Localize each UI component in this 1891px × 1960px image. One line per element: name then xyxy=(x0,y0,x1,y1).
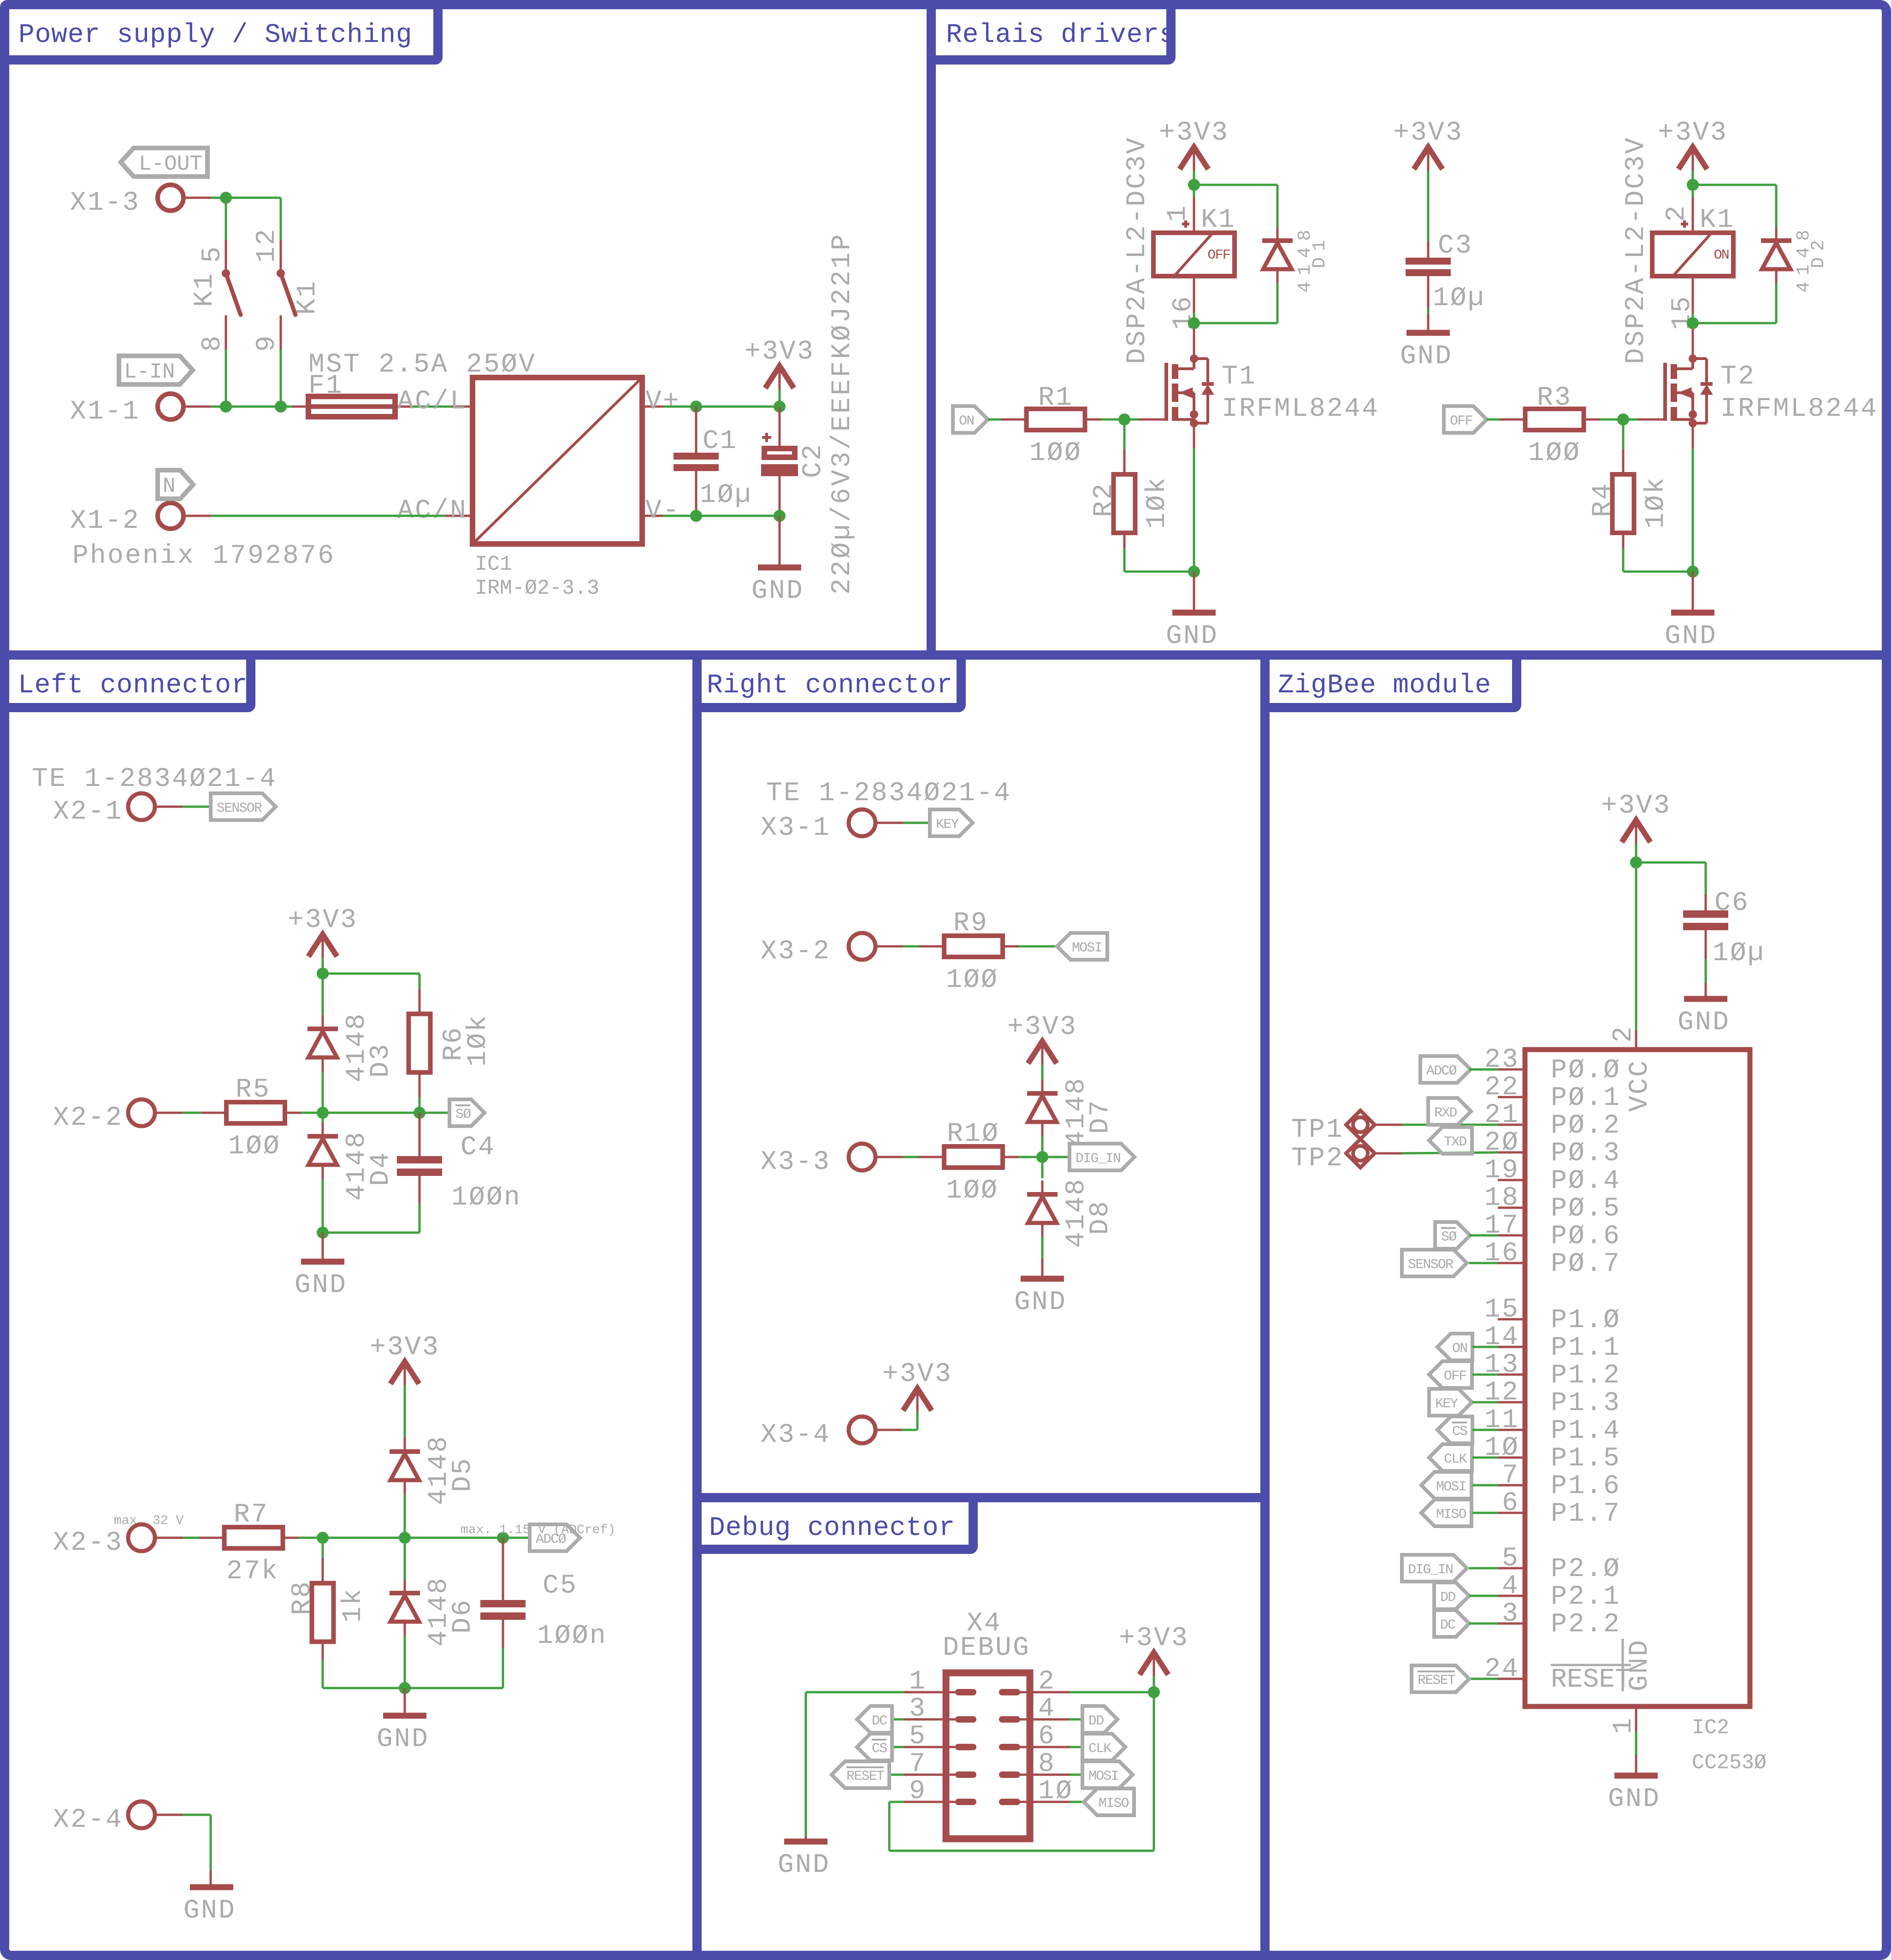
wire K1 contact 1 to L-IN node xyxy=(225,349,227,407)
wire TP1 to pin 21 xyxy=(1375,1124,1498,1126)
power +3V3 supply left connector upper xyxy=(288,905,358,958)
resistor R6 xyxy=(409,989,431,1113)
flag MOSI net right connector xyxy=(1057,933,1107,960)
capacitor C3 xyxy=(1406,171,1451,330)
wire +3V3 to V+ node xyxy=(779,390,781,407)
wire R7 to node R8 xyxy=(299,1537,323,1539)
coil plus sign T1 xyxy=(1182,223,1189,225)
svg-text:1Øk: 1Øk xyxy=(463,1014,493,1067)
svg-text:PØ.7: PØ.7 xyxy=(1551,1249,1621,1279)
IC2 pin 16 stub xyxy=(1498,1262,1525,1264)
wire X1-3 to node xyxy=(183,197,226,199)
flag L-OUT xyxy=(121,148,207,177)
IC2 pin 4 stub xyxy=(1498,1595,1525,1597)
svg-text:5: 5 xyxy=(1502,1544,1519,1574)
svg-text:1ØØ: 1ØØ xyxy=(946,965,999,995)
svg-text:GND: GND xyxy=(1625,1639,1655,1691)
svg-text:P1.5: P1.5 xyxy=(1551,1444,1621,1474)
svg-text:D7: D7 xyxy=(1086,1099,1116,1134)
wire KEY to pin 12 xyxy=(1472,1401,1498,1404)
junction X1-1 a xyxy=(220,401,232,413)
svg-text:CC253Ø: CC253Ø xyxy=(1692,1751,1767,1775)
svg-text:P2.1: P2.1 xyxy=(1551,1582,1621,1612)
wire source node to GND T1 xyxy=(1193,572,1195,613)
capacitor C6 xyxy=(1683,894,1728,999)
svg-text:IRFML8244: IRFML8244 xyxy=(1222,394,1379,424)
junction gate node T1 xyxy=(1118,413,1130,425)
svg-text:D1: D1 xyxy=(1310,234,1330,268)
flag S0 net xyxy=(449,1099,485,1126)
connector pin X1-1 xyxy=(70,394,183,427)
connector pin X2-2 xyxy=(53,1099,155,1133)
svg-text:R1Ø: R1Ø xyxy=(947,1119,999,1149)
svg-text:CLK: CLK xyxy=(1444,1452,1467,1467)
frame divider horizontal main xyxy=(0,650,1891,660)
IC2 pin 1 GND stub xyxy=(1635,1706,1637,1776)
ground GND C3 xyxy=(1400,333,1453,372)
svg-text:R1: R1 xyxy=(1038,383,1073,413)
junction source node T2 xyxy=(1687,566,1699,578)
svg-text:+3V3: +3V3 xyxy=(1159,118,1229,148)
wire +3V3 to coil node T2 xyxy=(1692,171,1694,185)
svg-text:X3-1: X3-1 xyxy=(761,813,831,843)
connector pin X1-2 xyxy=(70,503,183,536)
svg-text:R9: R9 xyxy=(953,909,988,939)
junction ADC node c xyxy=(497,1532,509,1544)
junction V+ at C1 xyxy=(690,401,702,413)
resistor R10 xyxy=(919,1146,1028,1168)
wire MISO to pin 6 xyxy=(1472,1512,1498,1514)
wire +3V3 to coil node T1 xyxy=(1193,171,1195,185)
wire pin 10 to MISO xyxy=(1020,1801,1084,1803)
svg-text:1ØØn: 1ØØn xyxy=(451,1183,521,1213)
svg-text:GND: GND xyxy=(1678,1008,1730,1038)
diode D1 xyxy=(1262,227,1293,283)
svg-text:OFF: OFF xyxy=(1444,1369,1466,1384)
svg-text:PØ.6: PØ.6 xyxy=(1551,1222,1621,1252)
power +3V3 supply driver T1 xyxy=(1159,118,1229,171)
ground GND IC2 xyxy=(1608,1776,1661,1814)
IC2 pin 21 stub xyxy=(1498,1124,1525,1126)
svg-text:MOSI: MOSI xyxy=(1072,940,1102,956)
section title Power supply / Switching xyxy=(5,5,438,60)
wire V- to GND xyxy=(779,516,781,567)
IC2 pin 14 stub xyxy=(1498,1346,1525,1348)
svg-text:D4: D4 xyxy=(366,1151,396,1186)
diode D6 xyxy=(390,1544,420,1682)
svg-text:GND: GND xyxy=(778,1850,830,1880)
wire X3-1 to KEY xyxy=(875,822,930,824)
svg-text:AC/N: AC/N xyxy=(397,496,467,526)
svg-text:X2-1: X2-1 xyxy=(53,797,123,827)
svg-text:+3V3: +3V3 xyxy=(1601,791,1671,821)
transistor T1 IRFML8244 xyxy=(1164,354,1214,427)
flag N xyxy=(158,470,193,499)
svg-text:R8: R8 xyxy=(288,1580,318,1615)
flag KEY net zigbee xyxy=(1429,1389,1472,1416)
svg-text:DD: DD xyxy=(1440,1590,1455,1606)
wire R1 to gate node xyxy=(1101,419,1124,421)
wire node to node C5 xyxy=(405,1537,503,1539)
svg-text:DIG_IN: DIG_IN xyxy=(1076,1151,1120,1167)
svg-text:K1: K1 xyxy=(190,272,220,307)
wire diode D2 to coil bottom xyxy=(1775,283,1778,323)
svg-text:1ØØ: 1ØØ xyxy=(228,1132,281,1162)
wire pin 4 to DD xyxy=(1020,1718,1082,1721)
flag MISO net zigbee xyxy=(1421,1500,1471,1526)
flag DD net debug xyxy=(1082,1706,1117,1733)
svg-text:P2.2: P2.2 xyxy=(1551,1610,1621,1640)
resistor R9 xyxy=(919,936,1028,957)
wire MOSI to pin 7 xyxy=(1472,1484,1498,1487)
svg-text:ADCØ: ADCØ xyxy=(1426,1063,1457,1079)
svg-text:D6: D6 xyxy=(448,1599,478,1634)
svg-text:2: 2 xyxy=(1609,1025,1639,1043)
power +3V3 supply debug xyxy=(1119,1623,1189,1676)
svg-text:DEBUG: DEBUG xyxy=(943,1633,1030,1663)
svg-text:D3: D3 xyxy=(366,1043,396,1078)
wire L-OUT across xyxy=(226,197,281,199)
junction +3V3 debug xyxy=(1148,1686,1160,1698)
fuse F1 xyxy=(292,396,413,417)
wire pin 1 to GND debug xyxy=(806,1692,955,1842)
connector pin X3-1 xyxy=(761,809,875,843)
wire R10 to node xyxy=(1018,1156,1042,1158)
svg-text:1ØØ: 1ØØ xyxy=(1029,438,1082,468)
wire node to GND left lower xyxy=(404,1688,406,1716)
IC2 pin 3 stub xyxy=(1498,1623,1525,1625)
svg-text:ON: ON xyxy=(959,413,974,429)
wire X2-1 to SENSOR xyxy=(154,806,211,808)
svg-text:X2-4: X2-4 xyxy=(53,1805,123,1835)
svg-text:P1.3: P1.3 xyxy=(1551,1388,1621,1418)
ground GND C6 xyxy=(1678,999,1730,1038)
header X4 DEBUG xyxy=(946,1673,1030,1839)
ground GND left lower xyxy=(377,1716,429,1754)
IC2 pin 5 stub xyxy=(1498,1567,1525,1570)
svg-text:KEY: KEY xyxy=(936,817,959,832)
svg-text:+3V3: +3V3 xyxy=(1393,118,1463,148)
relay coil K1 T2 xyxy=(1652,197,1733,313)
svg-text:GND: GND xyxy=(295,1270,347,1300)
section title ZigBee module xyxy=(1265,655,1517,708)
svg-text:TP2: TP2 xyxy=(1291,1144,1344,1174)
svg-text:V-: V- xyxy=(645,496,680,526)
flag DC net zigbee xyxy=(1434,1610,1469,1637)
svg-text:R4: R4 xyxy=(1588,482,1618,517)
wire node to DIG_IN flag xyxy=(1042,1156,1070,1158)
svg-text:IRFML8244: IRFML8244 xyxy=(1720,394,1878,424)
svg-text:PØ.2: PØ.2 xyxy=(1551,1111,1621,1141)
svg-text:P1.7: P1.7 xyxy=(1551,1499,1621,1529)
junction ADC node a xyxy=(317,1532,329,1544)
svg-text:+3V3: +3V3 xyxy=(1007,1012,1077,1042)
wire IC1 V+ to C1 xyxy=(663,406,696,408)
svg-text:D8: D8 xyxy=(1086,1200,1116,1235)
wire DC to pin 3 xyxy=(1469,1623,1498,1625)
power +3V3 supply C3 xyxy=(1393,118,1463,171)
svg-text:1ØØ: 1ØØ xyxy=(1528,438,1581,468)
wire CLK to pin 10 xyxy=(1472,1457,1498,1459)
junction V- at C2 xyxy=(774,510,786,522)
wire node to node D5 xyxy=(323,1537,405,1539)
wire X3-4 to +3V3 xyxy=(875,1411,917,1430)
svg-text:PØ.5: PØ.5 xyxy=(1551,1194,1621,1224)
svg-text:R3: R3 xyxy=(1537,383,1572,413)
svg-text:CS: CS xyxy=(1452,1424,1467,1440)
svg-text:Power supply / Switching: Power supply / Switching xyxy=(18,20,413,50)
svg-text:+3V3: +3V3 xyxy=(745,337,815,367)
svg-text:ON: ON xyxy=(1714,248,1729,263)
resistor R3 xyxy=(1500,409,1609,430)
resistor R4 xyxy=(1613,419,1634,572)
wire R9 to MOSI xyxy=(1018,945,1057,948)
svg-text:+3V3: +3V3 xyxy=(1658,118,1728,148)
flag RESET net zigbee xyxy=(1412,1665,1469,1692)
junction signal S0 b xyxy=(414,1107,425,1119)
flag DIG_IN net right connector xyxy=(1070,1144,1135,1170)
connector pin X2-1 xyxy=(53,793,155,827)
svg-text:IC1: IC1 xyxy=(475,553,512,576)
wire V+ C1 to C2 xyxy=(696,406,780,408)
flag KEY net right connector xyxy=(930,809,973,836)
flag OFF net zigbee xyxy=(1429,1361,1472,1388)
svg-text:P1.4: P1.4 xyxy=(1551,1416,1621,1446)
diode D7 xyxy=(1027,1080,1058,1157)
svg-text:GND: GND xyxy=(751,576,804,606)
svg-text:R5: R5 xyxy=(236,1075,271,1105)
wire +3V3 to D7 xyxy=(1041,1065,1044,1080)
svg-text:K1: K1 xyxy=(1201,205,1236,235)
svg-text:DSP2A-L2-DC3V: DSP2A-L2-DC3V xyxy=(1621,136,1651,364)
svg-text:C1: C1 xyxy=(703,426,738,456)
power +3V3 supply X3-4 xyxy=(882,1359,952,1412)
connector pin X3-2 xyxy=(761,933,875,967)
svg-text:L-OUT: L-OUT xyxy=(139,152,202,176)
section title Right connector xyxy=(697,655,961,708)
IC1 power module IRM-02-3.3 xyxy=(445,378,663,544)
wire pin 5 to CS xyxy=(892,1746,955,1748)
svg-text:Relais drivers: Relais drivers xyxy=(946,20,1176,50)
frame divider vertical top xyxy=(927,9,936,655)
wire down to K1 contact 2 xyxy=(280,198,282,240)
svg-text:1Øk: 1Øk xyxy=(1641,476,1671,529)
svg-text:T2: T2 xyxy=(1720,362,1755,392)
wire X1-1 node to node b xyxy=(226,406,281,408)
relay coil K1 T1 xyxy=(1153,197,1235,313)
svg-text:X1-2: X1-2 xyxy=(70,506,140,536)
wire R4 to source node xyxy=(1623,571,1693,573)
flag CS net zigbee xyxy=(1437,1417,1472,1443)
input flag OFF xyxy=(1444,406,1487,433)
IC2 pin 23 stub xyxy=(1498,1069,1525,1071)
frame divider vertical bottom right xyxy=(1260,660,1270,1955)
relay contact K1 5-8 xyxy=(222,240,241,349)
diode D8 xyxy=(1027,1163,1058,1258)
wire S0 to pin 17 xyxy=(1469,1234,1498,1237)
ground GND right connector xyxy=(1014,1279,1067,1317)
wire coil bottom to transistor T1 xyxy=(1193,323,1195,329)
junction +3V3 left upper xyxy=(317,968,329,980)
flag SENSOR net xyxy=(211,793,276,820)
wire +3V3 to node D3 xyxy=(322,958,324,974)
svg-text:22Øµ/6V3/EEEFKØJ221P: 22Øµ/6V3/EEEFKØJ221P xyxy=(827,232,857,595)
IC2 pin 22 stub xyxy=(1498,1096,1525,1098)
resistor R2 xyxy=(1114,419,1135,572)
junction coil top T2 xyxy=(1687,179,1699,191)
wire X3-2 to R9 xyxy=(875,945,928,948)
flag ON net zigbee xyxy=(1437,1334,1472,1360)
svg-text:KEY: KEY xyxy=(1435,1396,1458,1412)
ground GND driver T2 xyxy=(1665,613,1717,651)
svg-text:N: N xyxy=(163,474,176,498)
wire coil top to diode D2 xyxy=(1693,184,1776,186)
svg-text:RESET: RESET xyxy=(1418,1673,1455,1688)
svg-text:AC/L: AC/L xyxy=(397,387,467,417)
svg-text:Left connector: Left connector xyxy=(18,671,248,701)
svg-text:SØ: SØ xyxy=(1441,1229,1457,1245)
svg-text:D2: D2 xyxy=(1808,234,1829,268)
wire X1-2 to IC1 AC/N xyxy=(183,515,445,517)
svg-text:SENSOR: SENSOR xyxy=(1408,1257,1454,1273)
wire diode D1 to coil bottom xyxy=(1276,283,1279,323)
wire IC1 V- to C1 bottom xyxy=(663,515,696,517)
wire ADC0 to pin 23 xyxy=(1469,1069,1498,1071)
svg-text:2: 2 xyxy=(1662,204,1692,222)
wire DIG_IN to pin 5 xyxy=(1469,1567,1498,1570)
svg-text:12: 12 xyxy=(252,228,282,263)
svg-text:1: 1 xyxy=(1163,204,1193,222)
svg-text:27k: 27k xyxy=(226,1557,279,1587)
svg-text:OFF: OFF xyxy=(1450,413,1472,429)
svg-text:18: 18 xyxy=(1484,1183,1519,1213)
wire R5 to node D3 xyxy=(301,1112,323,1114)
wire down to K1 contact 1 xyxy=(225,198,227,240)
svg-text:+3V3: +3V3 xyxy=(288,905,358,935)
svg-text:P1.1: P1.1 xyxy=(1551,1333,1621,1363)
connector pin X3-4 xyxy=(761,1417,875,1450)
wire coil top to diode D1 xyxy=(1194,184,1277,186)
junction DIG_IN node xyxy=(1036,1151,1048,1163)
junction VCC node zigbee xyxy=(1630,856,1642,868)
svg-text:6: 6 xyxy=(1502,1488,1519,1518)
transistor T2 IRFML8244 xyxy=(1663,354,1713,427)
junction gate node T2 xyxy=(1617,413,1629,425)
flag DD net zigbee xyxy=(1434,1582,1469,1609)
wire coil bottom to transistor T2 xyxy=(1692,323,1694,329)
svg-text:IRM-Ø2-3.3: IRM-Ø2-3.3 xyxy=(475,577,599,600)
wire OFF to pin 13 xyxy=(1472,1374,1498,1376)
junction V+ at C2 xyxy=(774,401,786,413)
svg-text:R2: R2 xyxy=(1089,482,1119,517)
diode D4 xyxy=(307,1113,338,1233)
svg-text:X1-1: X1-1 xyxy=(70,397,140,427)
IC2 pin 20 stub xyxy=(1498,1151,1525,1154)
svg-text:9: 9 xyxy=(252,334,282,352)
wire pin 9 to +3V3 loop xyxy=(889,1692,1154,1851)
svg-text:+3V3: +3V3 xyxy=(370,1333,440,1363)
svg-text:CS: CS xyxy=(872,1741,887,1757)
svg-text:P1.Ø: P1.Ø xyxy=(1551,1305,1621,1335)
IC2 pin 6 stub xyxy=(1498,1512,1525,1514)
svg-text:P1.6: P1.6 xyxy=(1551,1471,1621,1501)
junction GND left upper xyxy=(317,1227,329,1239)
section title Debug connector xyxy=(697,1498,973,1549)
svg-text:1Øµ: 1Øµ xyxy=(1713,939,1765,968)
IC2 pin 10 stub xyxy=(1498,1457,1525,1459)
svg-text:VCC: VCC xyxy=(1625,1059,1655,1112)
wire pin 2 to +3V3 node xyxy=(1020,1691,1154,1694)
wire R3 to gate node xyxy=(1600,419,1623,421)
wire OFF to resistor R3 xyxy=(1487,419,1504,421)
svg-text:TP1: TP1 xyxy=(1291,1115,1344,1145)
power +3V3 supply left connector lower xyxy=(370,1333,440,1385)
svg-text:PØ.1: PØ.1 xyxy=(1551,1083,1621,1113)
flag MISO net debug xyxy=(1084,1789,1134,1815)
svg-text:C5: C5 xyxy=(543,1571,578,1601)
svg-text:CLK: CLK xyxy=(1088,1741,1111,1757)
wire node to ADC0 flag xyxy=(503,1537,530,1539)
ground GND power section xyxy=(751,567,804,606)
section title Relais drivers xyxy=(931,5,1171,60)
wire X3-3 to R10 xyxy=(875,1156,928,1158)
svg-text:15: 15 xyxy=(1484,1295,1519,1325)
junction signal S0 a xyxy=(317,1107,329,1119)
wire X2-4 to GND xyxy=(154,1815,211,1887)
svg-text:RXD: RXD xyxy=(1434,1105,1457,1121)
flag ADC0 net zigbee xyxy=(1420,1056,1471,1083)
ground GND driver T1 xyxy=(1166,613,1218,651)
resistor R7 xyxy=(199,1527,308,1548)
wire gate node to gate T2 xyxy=(1623,419,1637,421)
connector pin X3-3 xyxy=(761,1144,875,1177)
svg-text:MOSI: MOSI xyxy=(1436,1479,1466,1495)
svg-text:DC: DC xyxy=(1440,1618,1455,1633)
svg-text:TXD: TXD xyxy=(1444,1134,1466,1150)
svg-text:7: 7 xyxy=(1502,1461,1519,1491)
wire +3V3 to D5 xyxy=(404,1385,406,1438)
IC2 pin 24 stub xyxy=(1498,1678,1525,1680)
input flag ON xyxy=(953,406,988,433)
svg-text:19: 19 xyxy=(1484,1156,1519,1186)
wire X2-2 to R5 xyxy=(154,1112,211,1114)
svg-text:IC2: IC2 xyxy=(1692,1716,1729,1740)
IC2 pin 17 stub xyxy=(1498,1234,1525,1237)
wire DD to pin 4 xyxy=(1469,1595,1498,1597)
svg-text:5: 5 xyxy=(198,245,228,263)
flag DC net debug xyxy=(857,1706,892,1733)
diode D2 xyxy=(1761,227,1791,283)
svg-text:TE 1-2834Ø21-4: TE 1-2834Ø21-4 xyxy=(32,764,277,794)
svg-text:GND: GND xyxy=(1665,621,1717,651)
diode D3 xyxy=(307,974,338,1113)
svg-text:GND: GND xyxy=(1608,1784,1661,1814)
svg-text:ADCØ: ADCØ xyxy=(536,1532,567,1547)
svg-text:C3: C3 xyxy=(1438,231,1473,261)
flag CLK net debug xyxy=(1082,1734,1125,1760)
frame divider horizontal debug xyxy=(697,1493,1265,1502)
junction GND left lower xyxy=(399,1682,411,1694)
wire pin 6 to CLK xyxy=(1020,1746,1082,1748)
svg-text:PØ.3: PØ.3 xyxy=(1551,1139,1621,1169)
flag MOSI net debug xyxy=(1082,1761,1133,1788)
svg-text:1k: 1k xyxy=(338,1588,368,1623)
wire ON to resistor R1 xyxy=(988,419,1005,421)
svg-text:GND: GND xyxy=(1400,342,1453,372)
svg-text:8: 8 xyxy=(198,334,228,352)
svg-text:+3V3: +3V3 xyxy=(882,1359,952,1389)
junction source node T1 xyxy=(1188,566,1200,578)
